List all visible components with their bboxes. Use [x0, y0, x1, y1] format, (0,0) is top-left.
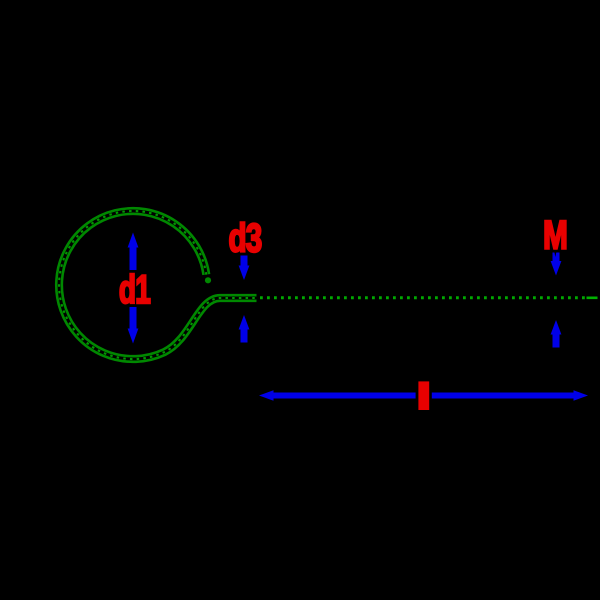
dimension d1 line (vertical, inside eye) [130, 245, 137, 331]
l left arrowhead [259, 390, 274, 401]
label d3 [228, 216, 261, 260]
eye wire dark core (makes double outline) [59, 211, 256, 359]
l right arrowhead [574, 390, 589, 401]
wire free end cross-section dot [205, 277, 211, 283]
label d1 [119, 268, 151, 312]
dimension l line (horizontal, full length) [272, 393, 575, 399]
d1 top arrowhead [128, 233, 139, 248]
label M [543, 213, 568, 257]
svg-text:M: M [543, 213, 568, 257]
svg-text:d3: d3 [228, 216, 261, 260]
wire mid dash-dot line along ring [59, 211, 256, 359]
d1 bottom arrowhead [128, 329, 139, 344]
svg-text:d1: d1 [119, 268, 151, 312]
shank centerline (dash-dot, green) [260, 296, 585, 299]
dimension d3 bottom arrow (points up) [241, 328, 248, 343]
dimension d3 top arrow (points down) [241, 254, 248, 269]
eye wire outline (ring + bend + shank), outer green stroke [59, 211, 256, 359]
dimension M bottom arrow (points up) [553, 333, 560, 348]
dimension M top arrow (points down) [553, 249, 560, 262]
centerline end dash [587, 296, 598, 299]
label l [416, 379, 432, 413]
